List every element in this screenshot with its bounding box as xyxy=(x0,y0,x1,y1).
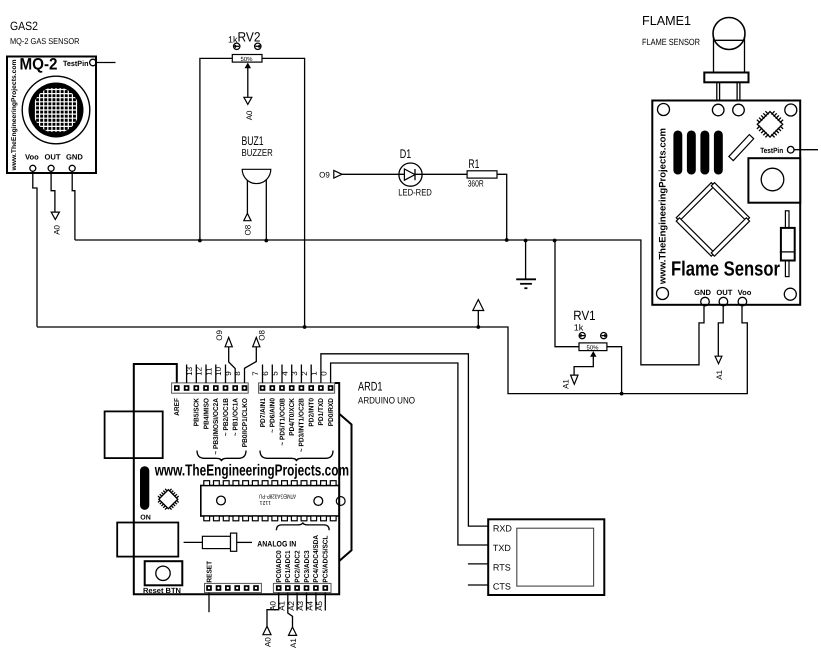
svg-text:O9: O9 xyxy=(215,329,224,340)
wire O9 to D1 to R1 xyxy=(342,173,467,175)
svg-text:Reset BTN: Reset BTN xyxy=(143,586,181,595)
chip orientation circles xyxy=(217,496,226,505)
svg-text:AREF: AREF xyxy=(174,397,181,415)
brace analog pin group xyxy=(276,522,329,530)
junction buzzer-gnd xyxy=(264,239,268,243)
svg-text:O8: O8 xyxy=(243,224,252,235)
LED D1 circle xyxy=(399,163,422,186)
wire RV2 right terminal down to VCC rail xyxy=(262,58,305,327)
svg-text:TXD: TXD xyxy=(493,543,512,553)
svg-text:~ PB1/OC1A: ~ PB1/OC1A xyxy=(232,398,240,436)
svg-text:TestPin: TestPin xyxy=(760,146,783,155)
svg-text:~ PD6/AIN0: ~ PD6/AIN0 xyxy=(269,398,277,433)
flame TestPin circle xyxy=(787,146,794,153)
svg-text:RTS: RTS xyxy=(493,562,511,572)
RV1 wiper arrow xyxy=(590,351,596,357)
RV1 adjust increase icon xyxy=(601,333,607,339)
flame pin GND circle xyxy=(701,297,710,306)
wire to ground symbol xyxy=(525,240,527,279)
svg-text:13: 13 xyxy=(185,366,194,375)
wire GAS2 GND down xyxy=(72,171,75,240)
svg-text:Flame Sensor: Flame Sensor xyxy=(671,257,780,280)
svg-text:R1: R1 xyxy=(468,157,479,171)
svg-text:360R: 360R xyxy=(468,179,484,189)
GAS2 sensor mesh outer ring xyxy=(22,76,90,144)
mounting hole TR xyxy=(785,104,797,116)
svg-text:A3: A3 xyxy=(296,600,305,610)
svg-text:O9: O9 xyxy=(319,170,330,179)
svg-text:11: 11 xyxy=(205,367,214,376)
flame board diagonal component xyxy=(729,135,754,161)
svg-text:7: 7 xyxy=(251,371,260,376)
svg-text:ANALOG IN: ANALOG IN xyxy=(257,540,296,549)
svg-text:PC3/ADC3: PC3/ADC3 xyxy=(303,550,311,582)
serial port inner box xyxy=(517,528,594,586)
wire stubs above top pins xyxy=(187,365,312,383)
mounting hole BR xyxy=(784,288,796,300)
flame LED legs xyxy=(717,82,740,104)
terminal A0 (bottom) xyxy=(263,626,271,635)
svg-text:PC4/ADC4/SDA: PC4/ADC4/SDA xyxy=(312,535,320,583)
svg-text:2: 2 xyxy=(300,371,309,376)
svg-text:PB5/SCK: PB5/SCK xyxy=(193,398,201,426)
wire GAS2 OUT down xyxy=(51,171,55,212)
buzzer right leg xyxy=(265,180,267,240)
svg-text:CTS: CTS xyxy=(493,582,511,592)
junction rv2-gnd xyxy=(198,239,202,243)
svg-text:www.TheEngineeringProjects.com: www.TheEngineeringProjects.com xyxy=(657,128,668,285)
flame board big diamond chip xyxy=(676,183,749,257)
LED D1 diode triangle xyxy=(404,169,415,180)
flame IR LED bulb xyxy=(713,18,745,50)
wire CTS stub xyxy=(468,584,488,586)
svg-text:A5: A5 xyxy=(315,600,324,610)
wire pin0 RXD to serial TXD xyxy=(331,363,489,545)
flame pin Voo circle xyxy=(738,297,747,306)
wire GAS2 Voo down xyxy=(33,171,37,326)
junction power-vcc xyxy=(476,325,480,329)
svg-text:PD0/RXD: PD0/RXD xyxy=(327,398,335,426)
svg-text:OUT: OUT xyxy=(716,288,732,297)
svg-text:GAS2: GAS2 xyxy=(10,19,38,33)
svg-text:LED-RED: LED-RED xyxy=(398,188,432,199)
flame sensor window square xyxy=(748,158,800,203)
svg-text:PD4/T0/XCK: PD4/T0/XCK xyxy=(288,398,296,436)
wire RV2 left terminal to vertical xyxy=(200,58,232,240)
svg-text:FLAME SENSOR: FLAME SENSOR xyxy=(642,37,700,47)
svg-text:A1: A1 xyxy=(715,369,724,379)
terminal O9 (to pin 9) xyxy=(225,337,232,346)
mounting hole TL xyxy=(658,104,670,116)
brace right pin group xyxy=(260,451,333,462)
GAS2 pin GND circle xyxy=(69,165,75,171)
wire pin1 TXD to serial RXD xyxy=(321,354,488,526)
arduino top header right block xyxy=(259,383,335,393)
LED D1 cathode bar xyxy=(414,169,416,180)
svg-text:ON: ON xyxy=(140,515,151,522)
junction rv1-gnd xyxy=(553,239,557,243)
wire RTS stub xyxy=(468,563,488,565)
chip pins top and bottom xyxy=(204,481,336,521)
svg-text:PC1/ADC1: PC1/ADC1 xyxy=(284,550,292,582)
arduino top header left block xyxy=(172,383,249,393)
flame sensor window circle xyxy=(761,168,784,191)
svg-text:Voo: Voo xyxy=(738,288,752,297)
svg-text:ARDUINO UNO: ARDUINO UNO xyxy=(358,395,415,406)
terminal O8 (to pin 8) xyxy=(253,337,260,346)
wire TestPin stub xyxy=(96,62,115,64)
arduino bottom header right block xyxy=(273,583,331,592)
junction rv1-vcc xyxy=(620,392,624,396)
wire PC1 to A1 terminal xyxy=(288,593,293,627)
svg-text:~ PB3/MOSI/OC2A: ~ PB3/MOSI/OC2A xyxy=(212,398,220,455)
flame board black bar 3 xyxy=(700,131,709,175)
svg-text:4: 4 xyxy=(280,371,289,376)
wire gnd rail to RV1 left xyxy=(555,240,579,347)
serial port box xyxy=(488,519,604,595)
svg-text:PB4/MISO: PB4/MISO xyxy=(202,397,210,429)
svg-text:PC5/ADC5/SCL: PC5/ADC5/SCL xyxy=(322,535,330,583)
crystal component xyxy=(184,541,203,543)
wire PC0 to A0 terminal xyxy=(267,593,279,627)
small QFP chip (diamond) xyxy=(155,486,182,513)
GAS2 sensor mesh black disc xyxy=(29,83,84,138)
terminal A0 (GAS2 OUT) xyxy=(51,212,59,219)
flame sensor board FLAME1 xyxy=(652,101,800,305)
svg-text:RESET: RESET xyxy=(206,560,213,582)
power arrow terminal xyxy=(477,311,479,328)
svg-text:O8: O8 xyxy=(258,329,267,340)
GAS2 pin OUT circle xyxy=(48,165,54,171)
svg-text:3: 3 xyxy=(290,371,299,376)
ON led bar xyxy=(140,466,149,510)
RV2 adjust decrease icon xyxy=(234,43,240,49)
svg-text:~ PB2/OC1B: ~ PB2/OC1B xyxy=(222,398,230,436)
power jack box xyxy=(117,523,178,557)
wire R1 to gnd rail xyxy=(497,174,507,240)
svg-text:50%: 50% xyxy=(241,56,254,63)
svg-text:12: 12 xyxy=(195,366,204,375)
junction r1-gnd xyxy=(505,238,509,242)
buzzer BUZ1 dome xyxy=(242,169,271,183)
junction rv2-vcc xyxy=(303,325,307,329)
svg-text:BUZ1: BUZ1 xyxy=(242,134,264,148)
svg-text:www.TheEngineeringProjects.com: www.TheEngineeringProjects.com xyxy=(154,463,349,480)
RV2 adjust increase icon xyxy=(255,43,261,49)
svg-text:PD1/TXD: PD1/TXD xyxy=(317,398,325,426)
brace left pin group xyxy=(197,451,246,462)
junction gndsym xyxy=(524,239,528,243)
wire reset stub xyxy=(208,593,210,613)
svg-text:FLAME1: FLAME1 xyxy=(642,13,691,28)
svg-text:RV2: RV2 xyxy=(238,29,261,44)
flame LED pads xyxy=(712,104,724,116)
svg-text:A0: A0 xyxy=(245,110,254,120)
svg-text:A0: A0 xyxy=(53,224,62,234)
wire VCC rail (MQ2 Voo to flame Voo) xyxy=(37,305,747,393)
flame board black bar 4 xyxy=(714,131,723,175)
wire O8 to pin8 xyxy=(245,347,257,383)
flame board QFP chip xyxy=(752,107,787,142)
svg-text:A1: A1 xyxy=(289,638,298,648)
terminal A1 (bottom) xyxy=(289,627,297,635)
svg-text:1121: 1121 xyxy=(260,499,272,505)
svg-text:PC0/ADC0: PC0/ADC0 xyxy=(275,550,283,582)
terminal O8 (buzzer) xyxy=(244,213,251,220)
svg-text:Voo: Voo xyxy=(25,153,39,162)
svg-text:PB0/ICP1/CLKO: PB0/ICP1/CLKO xyxy=(241,397,249,447)
wire O9 to pin9 xyxy=(229,347,236,383)
arduino board ARD1 outline xyxy=(134,364,339,594)
flame pin OUT circle xyxy=(719,297,728,306)
svg-text:1k: 1k xyxy=(574,323,584,333)
svg-text:1: 1 xyxy=(310,371,319,376)
svg-text:9: 9 xyxy=(224,371,233,376)
svg-text:6: 6 xyxy=(261,371,270,376)
wire stubs below analog pins xyxy=(297,593,325,611)
ground xyxy=(516,279,536,288)
GAS2 TestPin pin circle xyxy=(90,59,97,66)
potentiometer RV2 body xyxy=(232,55,262,63)
svg-text:D1: D1 xyxy=(400,147,412,161)
svg-text:A4: A4 xyxy=(306,600,315,610)
wire flame OUT to A1 xyxy=(718,305,723,356)
svg-text:RXD: RXD xyxy=(493,524,513,534)
svg-text:MQ-2 GAS SENSOR: MQ-2 GAS SENSOR xyxy=(10,36,80,46)
svg-text:GND: GND xyxy=(694,288,711,297)
svg-text:PD2/INT0: PD2/INT0 xyxy=(308,398,316,427)
wire flame TestPin stub xyxy=(794,149,818,151)
arduino bottom header left block xyxy=(205,583,262,592)
svg-text:PC2/ADC2: PC2/ADC2 xyxy=(293,550,301,582)
svg-text:ARD1: ARD1 xyxy=(358,379,383,393)
svg-text:50%: 50% xyxy=(587,344,600,351)
usb connector box xyxy=(105,411,163,458)
wire ground rail (MQ2 GND to flame GND) xyxy=(75,240,704,365)
GAS2 sensor mesh grid xyxy=(35,88,77,132)
svg-text:GND: GND xyxy=(66,153,83,162)
resistor R1 body xyxy=(467,171,497,178)
RV1 adjust decrease icon xyxy=(579,333,585,339)
reset button xyxy=(145,561,183,585)
svg-text:10: 10 xyxy=(214,366,223,375)
svg-text:~ PD5/T1/OC0B: ~ PD5/T1/OC0B xyxy=(278,398,286,446)
svg-text:PD7/AIN1: PD7/AIN1 xyxy=(259,398,267,427)
svg-text:A1: A1 xyxy=(561,379,570,389)
svg-text:RV1: RV1 xyxy=(573,308,595,323)
svg-text:5: 5 xyxy=(271,371,280,376)
RV2 wiper arrow xyxy=(245,63,251,69)
svg-text:www.TheEngineeringProjects.com: www.TheEngineeringProjects.com xyxy=(11,60,18,172)
svg-text:OUT: OUT xyxy=(45,153,61,162)
svg-text:ATMEGA328P-PU: ATMEGA328P-PU xyxy=(259,493,296,500)
terminal O9 (to LED) xyxy=(334,171,342,179)
GAS2 pin Voo circle xyxy=(30,165,36,171)
gas sensor module GAS2 body xyxy=(7,57,96,174)
terminal A0 (RV2 wiper) xyxy=(244,97,252,104)
wire RV1 right to junction xyxy=(607,347,622,394)
flame board black bar 1 xyxy=(673,131,682,175)
mounting hole BL xyxy=(657,288,669,300)
arduino board right flap xyxy=(339,414,351,561)
svg-text:A0: A0 xyxy=(264,637,273,647)
flame board resistor component xyxy=(785,211,789,228)
flame LED flange xyxy=(704,73,748,83)
svg-text:~ PD3/INT1/OC2B: ~ PD3/INT1/OC2B xyxy=(298,398,306,452)
flame board black bar 2 xyxy=(687,131,696,175)
terminal A1 (RV1 wiper) xyxy=(571,375,578,384)
chip U1 ATMEGA328P body xyxy=(201,486,339,517)
terminal A1 (flame OUT) xyxy=(715,356,722,364)
svg-text:TestPin: TestPin xyxy=(63,59,89,68)
svg-text:MQ-2: MQ-2 xyxy=(20,56,58,74)
svg-text:BUZZER: BUZZER xyxy=(242,148,273,159)
buzzer left leg xyxy=(246,181,248,214)
potentiometer RV1 body xyxy=(579,343,607,351)
